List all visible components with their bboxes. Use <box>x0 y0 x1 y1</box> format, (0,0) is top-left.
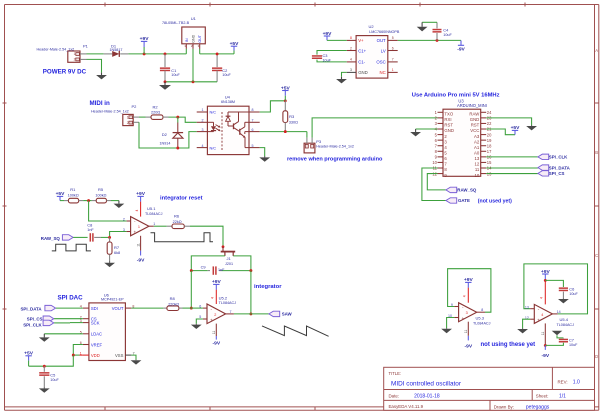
svg-text:11: 11 <box>475 167 480 172</box>
ground (C6) <box>558 299 569 304</box>
svg-text:OSC: OSC <box>376 60 385 65</box>
netflag RAW_SQ (arduino) <box>446 187 457 192</box>
svg-text:10: 10 <box>432 160 437 165</box>
wire VDD node to +5V <box>29 355 74 366</box>
svg-text:1nF: 1nF <box>218 268 225 272</box>
svg-text:13: 13 <box>525 305 529 309</box>
svg-text:-9V: -9V <box>464 344 472 350</box>
resistor R8 220k <box>163 296 182 310</box>
svg-text:4: 4 <box>541 313 543 317</box>
power flag -9V (U5.3) <box>464 336 472 350</box>
svg-text:5: 5 <box>252 144 254 148</box>
svg-text:V+: V+ <box>358 38 364 43</box>
ground (U5.2 +in) <box>191 324 202 329</box>
svg-text:4: 4 <box>202 144 204 148</box>
svg-text:GND: GND <box>470 117 480 122</box>
svg-text:24: 24 <box>487 110 492 115</box>
wire U6.LDAC to ground <box>44 333 83 335</box>
svg-text:SPI_CS: SPI_CS <box>549 171 565 176</box>
svg-text:C8: C8 <box>87 223 92 228</box>
svg-text:2: 2 <box>202 119 204 123</box>
svg-text:LMC7660INNOPB: LMC7660INNOPB <box>369 30 400 34</box>
wire U5.4 pin12 to ground <box>523 319 531 328</box>
transistor J1 J201 (JFET) <box>221 247 236 266</box>
svg-text:12: 12 <box>475 162 480 167</box>
power flag +9V (U2 V+) <box>323 31 333 41</box>
ground (C7) <box>552 331 563 335</box>
svg-text:U5.1: U5.1 <box>147 206 156 211</box>
svg-text:11: 11 <box>464 330 468 334</box>
svg-text:B: B <box>595 150 598 155</box>
svg-text:RAW_SQ: RAW_SQ <box>457 188 477 193</box>
wire U5.3 pin10 to ground <box>447 318 455 329</box>
svg-text:SPI_CLK: SPI_CLK <box>23 322 42 327</box>
svg-text:IN: IN <box>185 38 189 42</box>
svg-text:C6: C6 <box>569 286 574 291</box>
wire U1.GND down to rail <box>192 49 194 82</box>
svg-text:-9V: -9V <box>137 257 145 263</box>
svg-text:RAW: RAW <box>469 112 480 117</box>
wire U6.VDD node <box>73 354 79 356</box>
wire divider to U5.1 pin2 <box>89 201 127 221</box>
svg-text:SPI DAC: SPI DAC <box>58 295 84 302</box>
wire U3.11 to GATE <box>422 168 446 201</box>
svg-text:TL084ACJ: TL084ACJ <box>473 321 491 325</box>
svg-text:1: 1 <box>138 225 140 229</box>
svg-text:SDI: SDI <box>91 306 98 311</box>
svg-text:Sheet:: Sheet: <box>536 393 549 398</box>
resistor R3 330 <box>283 101 298 132</box>
svg-text:1: 1 <box>153 222 155 226</box>
svg-text:C5: C5 <box>50 372 55 377</box>
svg-text:P3: P3 <box>316 139 322 144</box>
svg-text:(not used yet): (not used yet) <box>478 199 512 205</box>
svg-text:20: 20 <box>487 132 492 137</box>
svg-text:10uF: 10uF <box>171 73 180 77</box>
svg-text:+: + <box>461 316 464 321</box>
svg-text:J201: J201 <box>225 262 233 266</box>
wire SPI_CS to U6.CS <box>54 318 83 320</box>
wire U2.OUT to -9V <box>398 39 461 41</box>
svg-text:7: 7 <box>230 310 232 314</box>
svg-text:+: + <box>537 318 540 323</box>
svg-text:A: A <box>595 48 598 53</box>
wire U5.4 feedback loop <box>524 264 588 314</box>
svg-text:U5.3: U5.3 <box>476 316 485 321</box>
svg-text:13: 13 <box>475 156 480 161</box>
power flag +9V (U5.2) <box>212 279 222 289</box>
power flag +5V (dac) <box>24 351 34 367</box>
svg-text:C7: C7 <box>569 338 574 343</box>
svg-text:integrator: integrator <box>254 284 282 290</box>
svg-text:Header-Male-2.54_1x2: Header-Male-2.54_1x2 <box>37 48 75 52</box>
capacitor C2 10uF <box>212 54 231 82</box>
svg-text:15: 15 <box>487 160 492 165</box>
svg-text:220Ω: 220Ω <box>151 110 160 114</box>
power flag +9V (U5.3) <box>464 277 474 287</box>
svg-text:2: 2 <box>127 121 129 125</box>
svg-text:6: 6 <box>199 304 201 308</box>
svg-text:NC: NC <box>379 70 385 75</box>
power flag +5V (opto) <box>281 85 291 101</box>
svg-text:SPI_DATA: SPI_DATA <box>21 306 43 311</box>
wire U5.2 pin5 to ground <box>196 319 203 324</box>
resistor R1 100k <box>64 187 83 203</box>
wire P1.2 to ground <box>87 59 102 72</box>
IC U6 MCP4921-EP <box>80 292 135 360</box>
svg-text:LV: LV <box>381 48 386 53</box>
svg-text:U4: U4 <box>225 94 231 99</box>
capacitor C8 1nF <box>87 223 109 242</box>
svg-text:OUT: OUT <box>198 34 202 42</box>
ground (U2) <box>336 77 347 84</box>
svg-text:R7: R7 <box>114 245 120 250</box>
power flag -9V (U5.1) <box>137 251 145 264</box>
svg-text:ARDUINO_MINI: ARDUINO_MINI <box>457 103 487 108</box>
svg-text:GND: GND <box>444 128 454 133</box>
svg-text:2: 2 <box>123 217 125 221</box>
netflag SAW <box>269 311 280 316</box>
svg-text:18: 18 <box>487 143 492 148</box>
ground (C5) <box>39 387 50 392</box>
svg-text:8: 8 <box>350 36 352 40</box>
svg-text:VOUT: VOUT <box>112 306 124 311</box>
wire U6.VREF to VDD node <box>73 345 83 356</box>
svg-text:D2: D2 <box>162 132 168 137</box>
svg-text:not using these yet: not using these yet <box>481 342 536 348</box>
svg-text:1: 1 <box>127 116 129 120</box>
svg-text:10uF: 10uF <box>443 33 452 37</box>
capacitor C7 10uF <box>557 335 578 347</box>
svg-text:2: 2 <box>74 58 76 62</box>
svg-text:U5.2: U5.2 <box>219 295 228 300</box>
svg-text:P2: P2 <box>132 104 138 109</box>
power flag +9V (input rail) <box>140 36 150 54</box>
svg-text:MCP4921-EP: MCP4921-EP <box>101 298 124 302</box>
svg-text:TL084ACJ: TL084ACJ <box>219 301 237 305</box>
svg-text:VCC: VCC <box>470 128 479 133</box>
svg-text:14: 14 <box>557 310 561 314</box>
svg-text:78L05ML-TB2-B: 78L05ML-TB2-B <box>162 21 190 25</box>
wire pin11 node to C7 <box>545 343 563 346</box>
waveform sawtooth <box>262 326 329 336</box>
svg-text:SPI_DATA: SPI_DATA <box>549 165 571 170</box>
svg-text:+: + <box>210 317 213 322</box>
svg-text:C9: C9 <box>201 265 206 270</box>
wire R1-R5 junction <box>83 200 92 202</box>
svg-text:A1: A1 <box>474 145 480 150</box>
svg-text:VDD: VDD <box>91 353 100 358</box>
diode D2 1N914 <box>160 117 184 148</box>
svg-text:SCK: SCK <box>91 320 100 325</box>
wire P2.1 to R2 <box>139 116 146 118</box>
svg-text:R1: R1 <box>70 187 76 192</box>
svg-text:7: 7 <box>252 119 254 123</box>
svg-text:R8: R8 <box>170 296 176 301</box>
svg-text:4: 4 <box>211 297 215 299</box>
svg-text:3: 3 <box>350 68 352 72</box>
svg-text:11: 11 <box>136 243 140 247</box>
wire U3.16 to SPI_CLK <box>486 156 538 158</box>
svg-text:22kΩ: 22kΩ <box>173 220 182 224</box>
wire P2.2 to U4.3 <box>139 122 197 148</box>
wire U1.OUT to +5V rail <box>199 49 201 54</box>
ground (arduino left) <box>410 129 421 136</box>
svg-text:C4: C4 <box>443 28 449 33</box>
wire +5V to R1 <box>60 200 64 202</box>
svg-text:POWER 9V DC: POWER 9V DC <box>43 69 87 76</box>
header P3 Header-Male-2.54_1x2 <box>304 138 354 153</box>
power flag +5V (reset divider) <box>56 191 66 200</box>
diode D1 1N5817 <box>104 43 129 57</box>
svg-text:GND: GND <box>192 34 196 42</box>
svg-text:8: 8 <box>481 308 483 312</box>
wire P1.1 to D1 <box>87 53 104 55</box>
wire R5 to ground <box>111 200 119 202</box>
svg-text:SPI_CS: SPI_CS <box>27 317 43 322</box>
svg-text:19: 19 <box>487 138 492 143</box>
svg-text:Drawn By:: Drawn By: <box>494 404 514 409</box>
wire U3.14 to SPI_DATA <box>486 167 538 169</box>
wire C4 top to ground <box>422 21 437 23</box>
svg-text:TL084ACJ: TL084ACJ <box>145 212 163 216</box>
header P2 Header-Male-2.54_1x2 <box>91 104 139 125</box>
svg-text:100kΩ: 100kΩ <box>68 194 79 198</box>
netflag SPI_DATA <box>538 165 549 170</box>
svg-text:3: 3 <box>202 128 204 132</box>
ground (power section) <box>159 82 171 90</box>
title block <box>384 367 595 410</box>
svg-text:2: 2 <box>214 313 216 317</box>
wire U5.2 out to SAW <box>234 313 269 315</box>
wire J1 drain to C9 left <box>191 256 225 271</box>
svg-text:1: 1 <box>392 68 394 72</box>
IC U2 LMC7660INNOPB <box>347 24 400 78</box>
svg-text:6: 6 <box>252 128 254 132</box>
svg-text:-9V: -9V <box>541 353 549 359</box>
wire R8 to U5.2 pin6 <box>183 307 192 309</box>
waveform reset pulses <box>151 233 214 242</box>
svg-text:RXI: RXI <box>444 117 451 122</box>
wire U4.8 to +5V node <box>260 101 286 112</box>
svg-text:1: 1 <box>202 108 204 112</box>
wire P3.2 to arduino RXI <box>312 118 437 138</box>
wire +9V to C6 <box>545 280 563 287</box>
svg-text:A2: A2 <box>474 139 480 144</box>
svg-text:MIDI controlled oscillator: MIDI controlled oscillator <box>391 381 462 388</box>
wire U2.GND to ground <box>342 72 347 76</box>
svg-text:remove when programming arduin: remove when programming arduino <box>287 157 383 163</box>
wire RAW_SQ to C8 <box>73 236 87 238</box>
wire C8 to U5.1 pin3 <box>110 232 127 238</box>
ground (VSS) <box>131 360 142 365</box>
svg-text:1/1: 1/1 <box>559 393 566 399</box>
svg-text:11: 11 <box>212 331 216 335</box>
svg-text:D: D <box>595 354 598 359</box>
regulator U1 78L05ML-TB2-B <box>162 16 205 49</box>
svg-text:1nF: 1nF <box>87 228 94 232</box>
ground (arduino right) <box>526 125 537 130</box>
svg-text:10uF: 10uF <box>569 343 578 347</box>
wire U3.GND(4) to ground <box>416 128 438 130</box>
svg-text:4: 4 <box>350 58 352 62</box>
power flag -9V (U5.4) <box>541 345 549 359</box>
wire C9 right to U5.2 out <box>250 271 252 314</box>
svg-text:7: 7 <box>392 58 394 62</box>
svg-text:A0: A0 <box>474 150 480 155</box>
ground (U5.3 +in) <box>441 328 452 333</box>
svg-text:VSS: VSS <box>115 353 124 358</box>
wire U3.VCC to +5V <box>486 129 515 135</box>
svg-text:10uF: 10uF <box>222 73 231 77</box>
svg-text:EasyEDA V4.11.9: EasyEDA V4.11.9 <box>389 404 424 409</box>
svg-text:REV:: REV: <box>558 379 568 384</box>
wire C9 left to U5.2 pin6 <box>190 271 192 309</box>
wire D1 to U1.IN (+9V rail) <box>128 53 186 55</box>
header P1 Header-Male-2.54_1x2 <box>37 43 89 62</box>
resistor R6 22k <box>167 214 190 229</box>
wire U4.6 to P3 <box>260 131 307 133</box>
power flag -9V (charge pump out) <box>457 40 465 52</box>
capacitor C9 1nF <box>190 265 252 275</box>
svg-text:A3: A3 <box>474 134 480 139</box>
wire P3.1 to U4.6 net <box>306 132 308 138</box>
svg-text:MIDI in: MIDI in <box>90 100 110 107</box>
svg-text:+: + <box>133 230 136 235</box>
svg-text:10uF: 10uF <box>50 378 59 382</box>
svg-text:1: 1 <box>74 52 76 56</box>
capacitor C3 10uF <box>312 51 347 63</box>
ground (C4) <box>417 22 428 31</box>
svg-text:integrator reset: integrator reset <box>160 195 203 201</box>
svg-text:6k8: 6k8 <box>114 251 120 255</box>
svg-text:RST: RST <box>471 123 480 128</box>
svg-text:17: 17 <box>487 149 492 154</box>
svg-text:GATE: GATE <box>458 198 470 203</box>
svg-text:-9V: -9V <box>212 341 220 347</box>
wire U3.13 to SPI_CS <box>486 173 538 175</box>
svg-text:22: 22 <box>487 121 492 126</box>
svg-text:R5: R5 <box>98 187 104 192</box>
ground (divider) <box>114 201 125 208</box>
svg-text:OUT: OUT <box>377 38 386 43</box>
wire SPI_DATA to U6.SDI <box>56 307 83 309</box>
svg-text:10: 10 <box>475 173 480 178</box>
ground (LDAC) <box>39 334 50 342</box>
capacitor C6 10uF <box>559 286 579 298</box>
svg-text:C1-: C1- <box>358 60 365 65</box>
svg-text:1.0: 1.0 <box>573 379 580 385</box>
svg-text:U5.4: U5.4 <box>560 317 569 322</box>
svg-text:330Ω: 330Ω <box>289 120 298 124</box>
svg-text:SAW: SAW <box>282 312 293 317</box>
svg-text:N/C: N/C <box>210 146 217 150</box>
netflag GATE <box>446 198 457 203</box>
IC U3 ARDUINO_MINI <box>432 98 492 177</box>
netflag SPI_CLK <box>538 154 549 159</box>
svg-text:10uF: 10uF <box>323 58 332 62</box>
svg-text:3: 3 <box>123 228 125 232</box>
svg-text:N/C: N/C <box>210 110 217 114</box>
svg-text:RST: RST <box>444 123 453 128</box>
ground (R7) <box>104 261 115 267</box>
svg-text:4: 4 <box>463 295 467 297</box>
svg-text:4: 4 <box>135 210 139 212</box>
wire R2 to U4.2 <box>169 117 197 122</box>
svg-text:Date:: Date: <box>389 393 400 398</box>
capacitor C1 10uF <box>160 54 181 82</box>
svg-text:5: 5 <box>392 36 394 40</box>
svg-text:R2: R2 <box>153 104 159 109</box>
power flag +5V (regulator out) <box>230 41 240 54</box>
svg-text:10uF: 10uF <box>569 292 578 296</box>
wire SPI_CLK to U6.SCK <box>54 322 70 324</box>
op-amp U5.2 TL084ACJ <box>199 290 236 336</box>
wire +9V to U2.V+ <box>327 39 347 41</box>
svg-text:TL084ACJ: TL084ACJ <box>557 323 575 327</box>
wire U6.VSS to ground <box>131 355 136 360</box>
op-amp U5.4 TL084ACJ <box>525 280 574 345</box>
svg-text:11: 11 <box>541 332 545 336</box>
svg-text:U1: U1 <box>191 16 197 21</box>
resistor R5 100k <box>92 187 111 203</box>
svg-text:P1: P1 <box>83 43 89 48</box>
wire R6 to J1 gate <box>190 226 223 247</box>
power flag -9V (U5.2) <box>212 336 220 347</box>
svg-text:Header-Male-2.54_1x2: Header-Male-2.54_1x2 <box>316 145 354 149</box>
svg-text:C: C <box>595 253 598 258</box>
ground (P1 return) <box>96 73 107 80</box>
svg-text:TXO: TXO <box>444 112 453 117</box>
svg-text:R6: R6 <box>174 214 180 219</box>
svg-text:2: 2 <box>350 46 352 50</box>
svg-text:4: 4 <box>540 297 544 299</box>
svg-text:Use Arduino Pro mini 5V 16MHz: Use Arduino Pro mini 5V 16MHz <box>412 93 500 99</box>
svg-text:9: 9 <box>451 303 453 307</box>
capacitor C4 10uF <box>433 22 453 40</box>
svg-text:VREF: VREF <box>91 342 103 347</box>
svg-text:6N138M: 6N138M <box>221 100 235 104</box>
svg-text:LDAC: LDAC <box>91 332 102 337</box>
svg-text:GND: GND <box>358 70 368 75</box>
svg-text:1N5817: 1N5817 <box>110 48 123 52</box>
ground (U5.4 +in) <box>517 328 528 333</box>
svg-text:6: 6 <box>392 46 394 50</box>
wire J1 source to C9 right <box>233 256 251 271</box>
svg-text:TITLE:: TITLE: <box>389 371 402 376</box>
power flag +9V (U5.4) <box>541 269 551 282</box>
svg-text:U2: U2 <box>369 24 375 29</box>
power flag +5V (arduino) <box>511 125 521 135</box>
wire ground rail C1-C2 <box>165 81 217 83</box>
waveform square wave (RAW_SQ) <box>52 244 91 251</box>
resistor R2 220 <box>146 104 169 119</box>
ground (U4 pin5) <box>259 156 270 162</box>
wire U3.GND(23) to ground <box>486 118 531 125</box>
wire U4.5 to ground <box>260 148 265 157</box>
svg-text:RAW_SQ: RAW_SQ <box>41 236 61 241</box>
svg-text:1N914: 1N914 <box>160 142 171 146</box>
netflag SPI_CS <box>538 171 549 176</box>
svg-text:100kΩ: 100kΩ <box>95 194 106 198</box>
svg-text:-9V: -9V <box>457 46 465 52</box>
svg-text:220kΩ: 220kΩ <box>168 302 179 306</box>
junction U5.4 pin11 node <box>544 344 547 347</box>
power flag +9V (U5.1) <box>136 191 146 201</box>
wire U3.12 to RAW_SQ <box>427 174 446 190</box>
op-amp U5.1 TL084ACJ <box>123 202 163 251</box>
capacitor C5 10uF <box>39 366 59 387</box>
